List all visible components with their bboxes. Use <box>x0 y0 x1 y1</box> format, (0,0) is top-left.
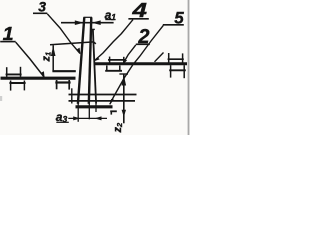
z2 arrow down <box>122 110 126 117</box>
small L mark right of a3 <box>110 110 117 112</box>
z2 arrow up <box>122 75 127 86</box>
vertical plate top cap <box>84 16 93 18</box>
svg-text:1: 1 <box>3 24 14 44</box>
leader 5 arrowhead <box>110 99 114 105</box>
a3 arrow pointing left <box>95 116 102 120</box>
right far staple below <box>169 69 186 71</box>
a3 label underline <box>56 121 69 123</box>
a3 extension line middle <box>88 104 90 120</box>
left near staple below <box>55 81 70 83</box>
left horizontal plate <box>1 77 76 80</box>
short vertical at H1 H2 left ends <box>71 88 73 103</box>
right near staple below <box>105 70 122 72</box>
stray stroke left of far staple <box>155 53 164 62</box>
a1 label underline <box>105 19 113 21</box>
z2 top tick <box>119 73 128 75</box>
svg-text:2: 2 <box>137 26 149 48</box>
leader 1 arrowhead <box>41 71 44 77</box>
right far staple above <box>168 58 184 60</box>
vertical plate right edge A <box>89 17 92 104</box>
a1 arrow left pointing right <box>75 20 84 25</box>
callout 1 underline <box>0 41 16 43</box>
leader 3 arrowhead <box>77 48 80 54</box>
callout 3 underline <box>33 12 47 14</box>
z1 arrow up <box>51 46 56 56</box>
a1 dimension line <box>61 22 114 24</box>
z1 dimension line <box>52 45 54 71</box>
a1 arrow right pointing left <box>92 20 101 25</box>
z1 reference line <box>50 42 96 45</box>
callout 5 underline <box>163 24 184 26</box>
svg-text:4: 4 <box>131 0 148 22</box>
a3 extension line left <box>77 104 79 122</box>
vertical plate right edge B <box>93 30 96 104</box>
under-plate line H1 <box>69 94 137 96</box>
left far staple below <box>9 82 25 84</box>
callout 2 leader <box>123 45 136 65</box>
z2 dimension line <box>123 74 125 123</box>
svg-text:3: 3 <box>38 0 46 14</box>
bottom front edge H3 <box>76 105 113 108</box>
callout 5 leader <box>110 25 164 104</box>
edge B top tick <box>90 28 95 30</box>
right horizontal plate <box>94 62 188 65</box>
left far staple above <box>6 73 22 75</box>
callout 4 leader <box>94 20 133 61</box>
a3 dimension line <box>68 117 107 119</box>
a3 arrow pointing right <box>73 116 80 120</box>
under-plate line H2 <box>69 100 136 102</box>
callout 2 underline <box>136 43 150 45</box>
scan gray strip right edge <box>188 0 190 135</box>
right near staple above <box>108 59 126 61</box>
weld top line left of plate <box>52 70 75 72</box>
callout 1 leader <box>16 42 45 77</box>
svg-text:5: 5 <box>174 8 184 27</box>
callout 4 underline <box>128 18 148 20</box>
callout 3 leader <box>47 14 80 54</box>
leader 2 arrowhead <box>122 59 127 65</box>
scan smudge bottom-left <box>0 96 2 101</box>
edge B lower extension <box>95 104 97 113</box>
vertical plate left edge <box>78 17 84 104</box>
leader 4 arrowhead <box>94 57 100 61</box>
